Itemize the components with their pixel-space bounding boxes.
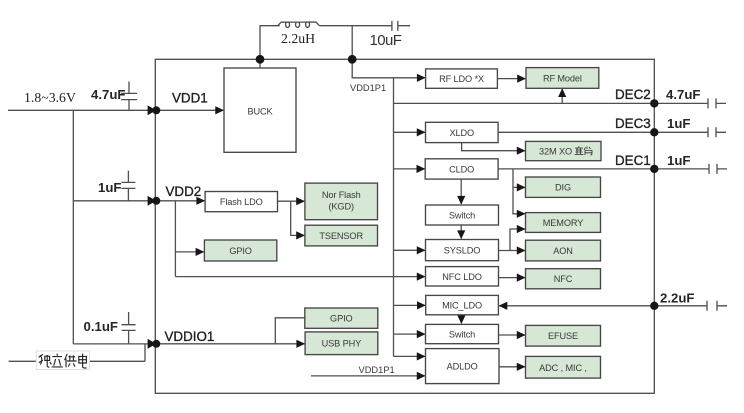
wire VDD2 <box>73 200 155 202</box>
wire RF LDO to RF Model <box>497 78 525 80</box>
svg-text:GPIO: GPIO <box>330 314 353 324</box>
label 4.7uF DEC2 <box>666 87 700 102</box>
node BUCK SW <box>256 55 265 64</box>
block TSENSOR <box>305 225 378 246</box>
block ADLDO <box>426 349 500 384</box>
node MIC 2.2uF <box>650 302 658 310</box>
block Switch upper <box>426 205 499 225</box>
wire into ADLDO upper <box>394 355 425 357</box>
svg-text:MEMORY: MEMORY <box>543 218 583 228</box>
block GPIO (VDD2) <box>204 240 276 261</box>
svg-text:XLDO: XLDO <box>450 128 475 138</box>
wire into Flash LDO <box>155 200 204 202</box>
label 4.7uF input <box>91 87 125 102</box>
svg-text:0.1uF: 0.1uF <box>84 319 118 334</box>
node DEC3 <box>650 128 658 136</box>
svg-text:2.2uF: 2.2uF <box>660 290 694 305</box>
label 1uF DEC1 <box>667 153 690 168</box>
svg-text:CLDO: CLDO <box>449 164 474 174</box>
wire into VDD1 pin <box>155 109 223 111</box>
svg-text:Switch: Switch <box>449 210 475 220</box>
block Flash LDO <box>205 192 277 212</box>
svg-text:TSENSOR: TSENSOR <box>319 231 363 241</box>
svg-text:NFC LDO: NFC LDO <box>442 272 482 282</box>
label 10uF <box>370 32 402 49</box>
block NFC <box>526 269 601 289</box>
svg-text:VDD2: VDD2 <box>166 184 202 199</box>
svg-text:10uF: 10uF <box>370 32 402 49</box>
wire VDD1P1 to RF LDO <box>352 59 425 78</box>
wire into XLDO <box>394 131 425 133</box>
svg-text:VDDIO1: VDDIO1 <box>165 329 215 344</box>
block SYSLDO <box>426 240 499 261</box>
wire DEC3 net <box>498 131 654 133</box>
svg-text:EFUSE: EFUSE <box>548 331 578 341</box>
svg-text:NFC: NFC <box>554 274 573 284</box>
wire independent-supply net <box>9 344 145 361</box>
wire VDD1 input <box>8 109 155 111</box>
svg-text:USB PHY: USB PHY <box>322 339 362 349</box>
block Switch lower <box>426 324 499 343</box>
wire into CLDO <box>394 168 425 170</box>
wire VDD1P1 rail <box>393 78 395 357</box>
wire into lower Switch <box>394 333 425 335</box>
wire DEC2 net <box>394 102 655 104</box>
wire VDDIO1 <box>73 343 155 345</box>
capacitor 10uF <box>392 21 410 31</box>
svg-text:ADC , MIC ,: ADC , MIC , <box>539 363 587 373</box>
node VDD2 pin <box>148 196 161 206</box>
node VDD1P1 <box>348 55 357 64</box>
wire Flash LDO to Nor Flash <box>278 200 305 202</box>
wire CLDO to Switch <box>460 179 462 204</box>
svg-text:1uF: 1uF <box>98 180 121 195</box>
label 1.8~3.6V <box>24 90 76 105</box>
node DEC1 <box>650 165 658 173</box>
capacitor 4.7uF DEC2 <box>654 98 726 108</box>
wire VDD2 branch to GPIO <box>175 201 203 277</box>
label VDD1P1 top <box>350 83 386 93</box>
wire VDD2 to NFC LDO <box>175 276 424 278</box>
svg-text:MIC_LDO: MIC_LDO <box>442 301 482 311</box>
inductor L1 2.2uH <box>278 22 320 27</box>
wire RF Model feed <box>561 89 563 103</box>
svg-text:4.7uF: 4.7uF <box>666 87 700 102</box>
wire XLDO to 32M XO <box>462 143 525 151</box>
label 2.2uF MIC <box>660 290 694 305</box>
svg-text:Switch: Switch <box>449 330 475 340</box>
label VDDIO1 <box>165 329 215 344</box>
block MEMORY <box>526 213 601 233</box>
svg-text:ADLDO: ADLDO <box>447 362 478 372</box>
wire into SYSLDO <box>394 249 425 251</box>
capacitor 1uF input <box>121 171 135 201</box>
block CLDO <box>425 159 498 179</box>
svg-text:GPIO: GPIO <box>229 246 252 256</box>
wire inductor to 10uF <box>319 25 392 27</box>
svg-text:RF Model: RF Model <box>543 73 582 83</box>
svg-text:1uF: 1uF <box>667 153 690 168</box>
svg-text:1uF: 1uF <box>667 116 690 131</box>
wire VDD1P1 drop to frame <box>351 26 353 60</box>
svg-text:DIG: DIG <box>555 183 571 193</box>
block XLDO <box>426 122 499 142</box>
label 32M XO oscillator CJK <box>575 146 593 155</box>
label DEC3 <box>615 116 651 131</box>
svg-text:2.2uH: 2.2uH <box>281 31 315 46</box>
svg-text:VDD1: VDD1 <box>172 91 208 106</box>
label 0.1uF input <box>84 319 118 334</box>
svg-text:1.8~3.6V: 1.8~3.6V <box>24 90 76 105</box>
block DIG <box>526 177 601 197</box>
capacitor 4.7uF input <box>121 82 137 111</box>
label independent supply CJK <box>36 351 89 369</box>
wire left rail <box>72 110 74 344</box>
wire VDD1P1 to ADLDO lower <box>311 375 425 377</box>
block 32M XO crystal <box>526 141 602 160</box>
wire VDDIO1 branch to GPIO <box>275 318 305 344</box>
block AON <box>526 240 601 261</box>
block RF LDO *X <box>426 69 498 88</box>
wire NFC LDO to NFC <box>499 277 525 279</box>
wire DEC1 net <box>498 168 654 170</box>
block BUCK <box>224 68 296 152</box>
svg-text:(KGD): (KGD) <box>328 202 353 212</box>
svg-text:SYSLDO: SYSLDO <box>444 246 481 256</box>
svg-text:DEC2: DEC2 <box>615 87 651 102</box>
capacitor 1uF DEC3 <box>654 127 726 137</box>
wire MIC_LDO to Switch <box>460 315 462 324</box>
block GPIO (VDDIO1) <box>305 308 378 328</box>
wire Flash LDO to TSENSOR <box>291 201 305 235</box>
label DEC1 <box>615 153 651 168</box>
svg-text:AON: AON <box>553 246 573 256</box>
label VDD1P1 bottom <box>359 365 395 375</box>
wire Switch to SYSLDO <box>460 225 462 238</box>
block USB PHY <box>305 332 378 355</box>
svg-text:DEC3: DEC3 <box>615 116 651 131</box>
label DEC2 <box>615 87 651 102</box>
svg-text:Nor Flash: Nor Flash <box>322 190 361 200</box>
node VDD1 pin <box>148 105 161 115</box>
svg-text:4.7uF: 4.7uF <box>91 87 125 102</box>
block NFC LDO <box>426 267 499 286</box>
wire BUCK output riser <box>260 26 280 68</box>
wire ADLDO to ADC MIC <box>499 366 525 368</box>
capacitor 1uF DEC1 <box>654 164 727 174</box>
wire 2.2uF net to MIC_LDO <box>499 305 654 307</box>
block ADC MIC <box>526 356 601 378</box>
svg-text:VDD1P1: VDD1P1 <box>350 83 386 93</box>
wire SYSLDO to MEMORY <box>510 229 525 251</box>
block EFUSE <box>526 325 601 346</box>
label 1uF DEC3 <box>667 116 690 131</box>
node DEC2 <box>650 99 658 107</box>
chip frame <box>155 59 654 393</box>
wire Switch to EFUSE <box>499 334 525 336</box>
svg-text:BUCK: BUCK <box>247 106 273 116</box>
svg-text:VDD1P1: VDD1P1 <box>359 365 395 375</box>
wire CLDO branch to DIG and MEMORY <box>513 169 525 214</box>
wire into MIC_LDO <box>394 304 426 306</box>
svg-text:DEC1: DEC1 <box>615 153 651 168</box>
label 1uF input <box>98 180 121 195</box>
node VDDIO1 pin <box>148 339 161 349</box>
wire SYSLDO to AON <box>499 250 525 252</box>
capacitor 2.2uF MIC <box>654 301 727 311</box>
svg-text:32M XO: 32M XO <box>539 146 572 156</box>
label VDD1 <box>172 91 208 106</box>
svg-text:Flash LDO: Flash LDO <box>220 197 263 207</box>
capacitor 0.1uF input <box>122 312 136 344</box>
label 2.2uH <box>281 31 315 46</box>
block Nor Flash (KGD) <box>305 183 378 220</box>
block RF Model <box>526 68 599 89</box>
label VDD2 <box>166 184 202 199</box>
wire VDDIO1 to USB PHY <box>155 343 304 345</box>
block MIC_LDO <box>426 295 499 314</box>
svg-text:RF LDO *X: RF LDO *X <box>439 74 484 84</box>
